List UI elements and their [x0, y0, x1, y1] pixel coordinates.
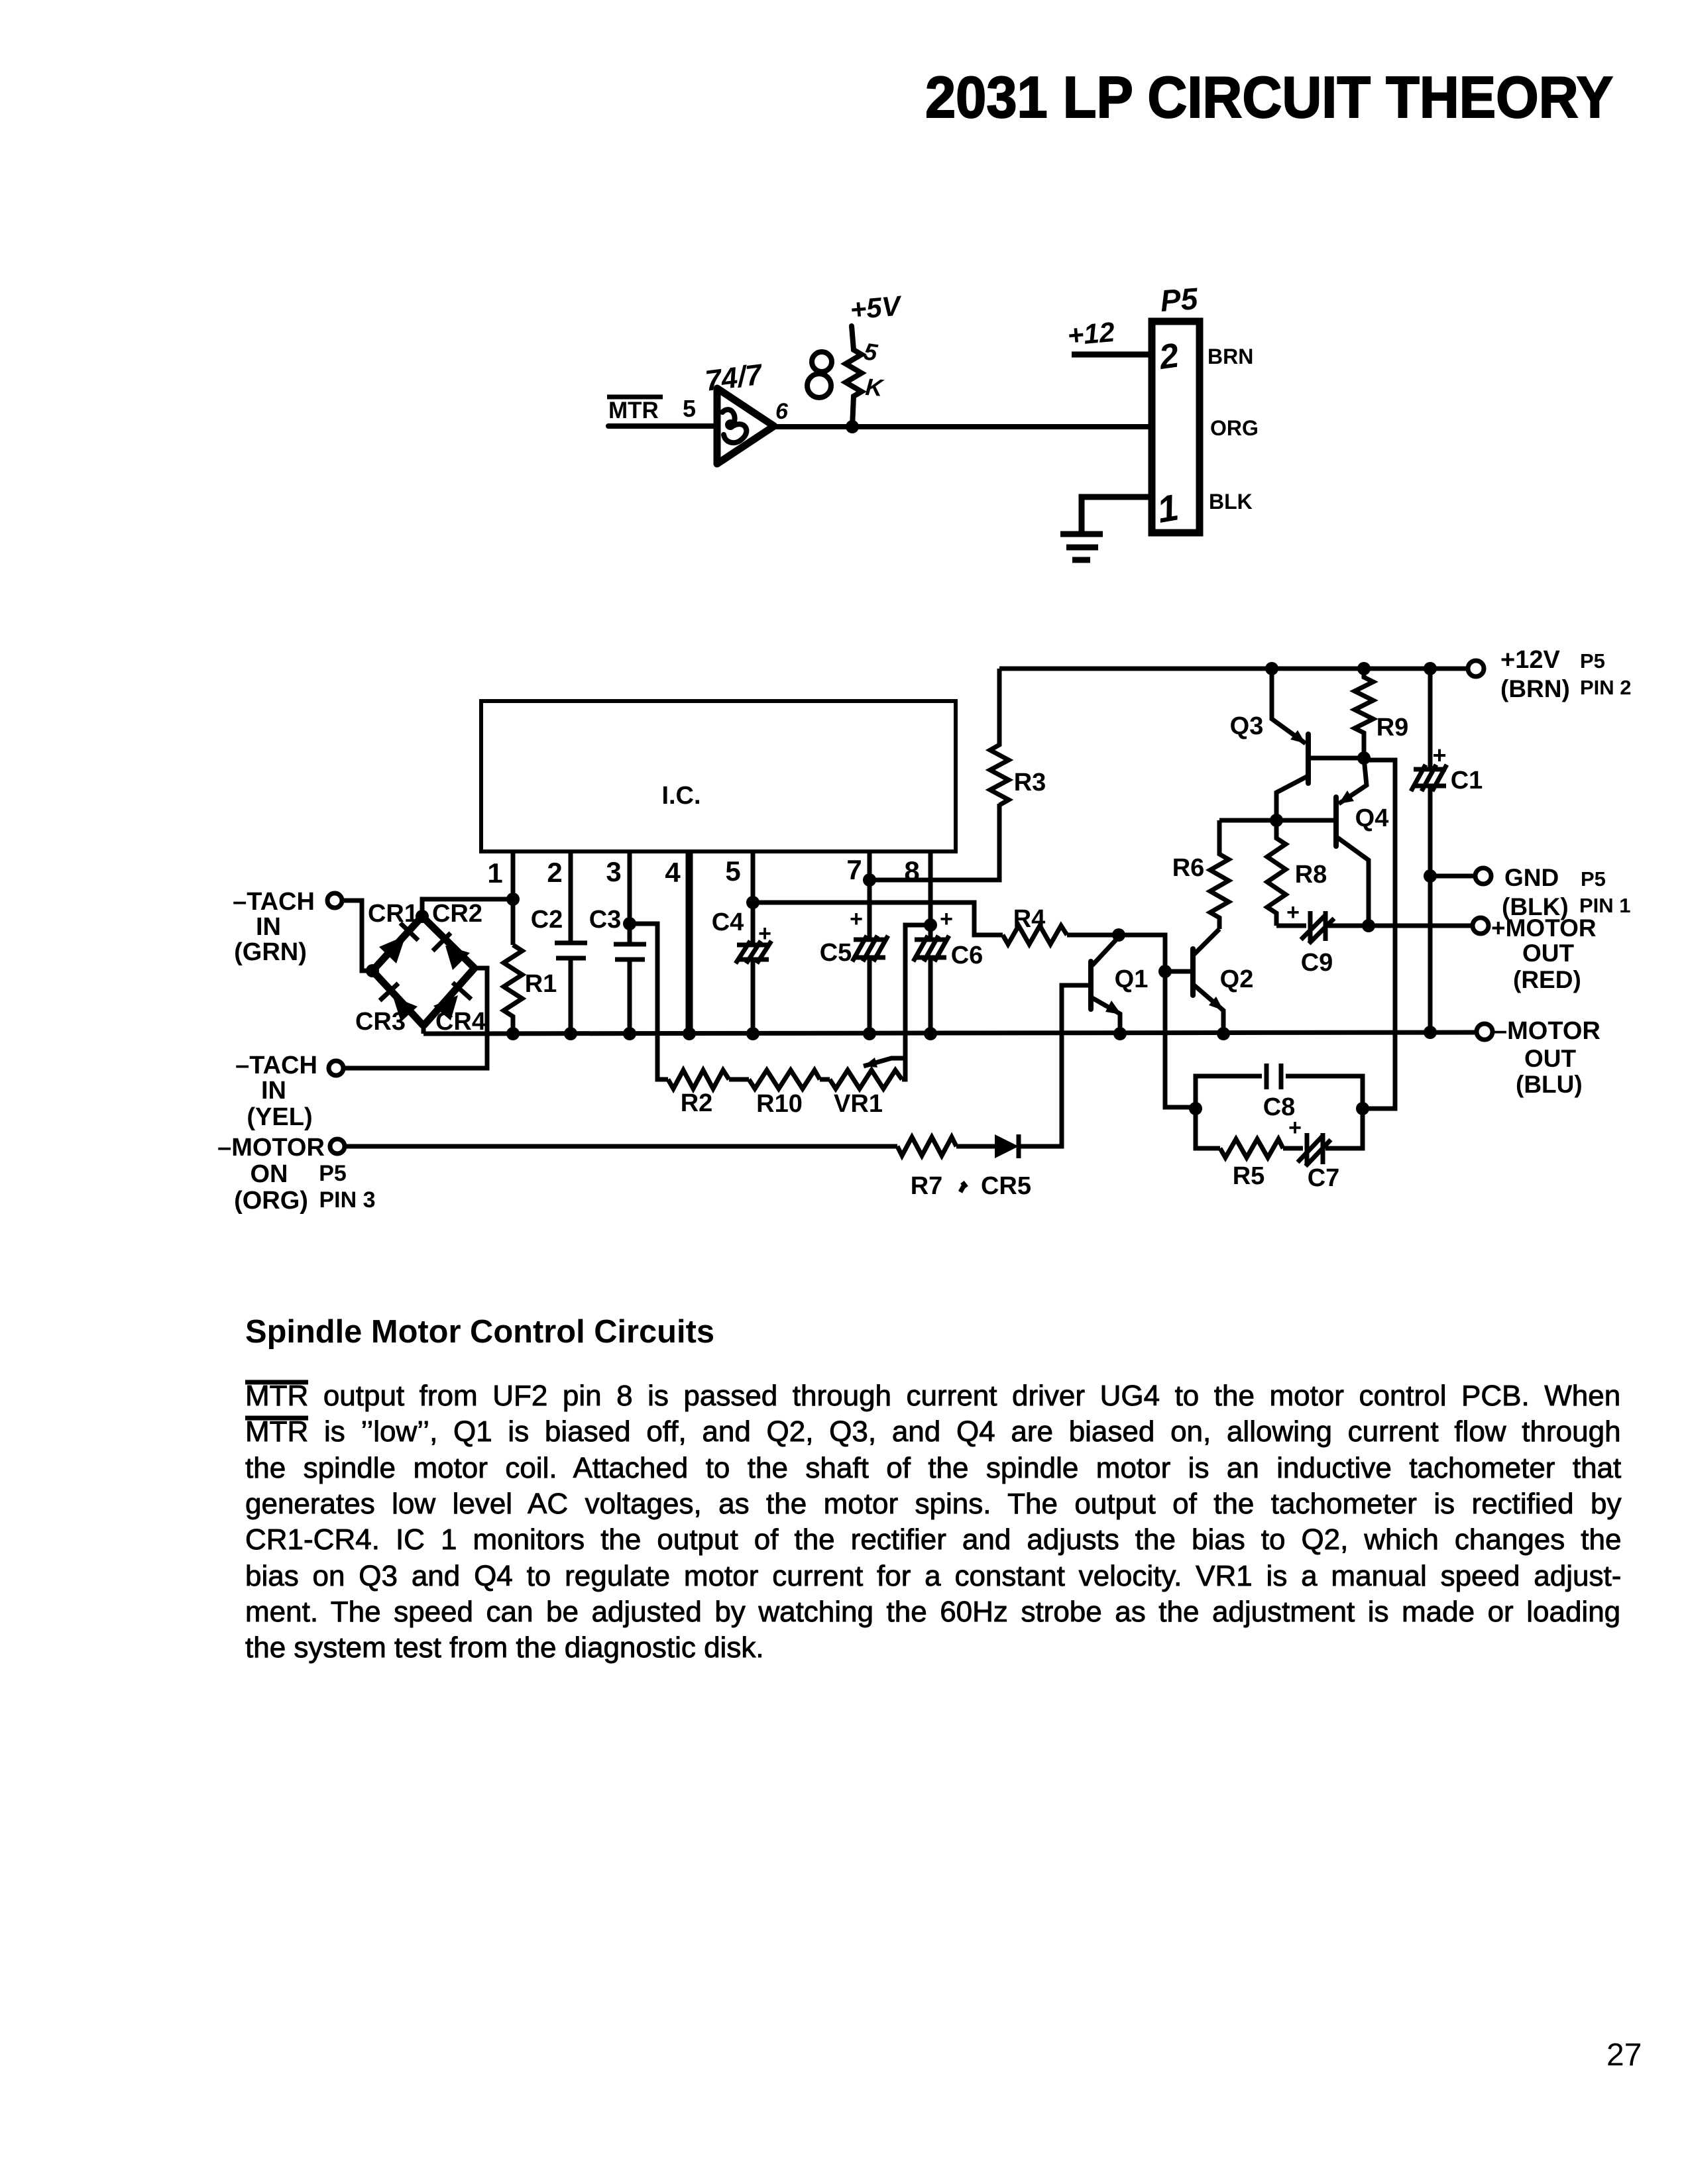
svg-text:MTR: MTR: [608, 398, 659, 423]
wire motor-on to R7: [345, 1144, 897, 1149]
svg-text:R5: R5: [1233, 1162, 1265, 1190]
svg-text:BRN: BRN: [1208, 345, 1253, 368]
svg-text:the system test from the diagn: the system test from the diagnostic disk…: [245, 1631, 764, 1664]
node Q4 collector junction: [1362, 919, 1375, 932]
svg-text:R6: R6: [1172, 854, 1205, 882]
svg-text:+: +: [940, 906, 953, 932]
node rail junctions: [1265, 662, 1278, 675]
node Q2 base junction: [1158, 965, 1172, 978]
svg-text:CR1: CR1: [368, 900, 418, 928]
svg-text:(BRN): (BRN): [1500, 675, 1570, 702]
svg-text:CR5: CR5: [981, 1172, 1031, 1200]
svg-text:CR2: CR2: [432, 900, 482, 928]
wire +12V rail: [999, 667, 1468, 671]
wire pin1 stub: [511, 851, 516, 945]
wire R2 to R10: [729, 1077, 749, 1082]
svg-text:R2: R2: [681, 1089, 713, 1117]
wire VR1 to pin8 net: [902, 925, 930, 1079]
svg-text:C4: C4: [712, 908, 744, 936]
svg-text:ORG: ORG: [1210, 416, 1259, 440]
svg-text:2031 LP CIRCUIT THEORY: 2031 LP CIRCUIT THEORY: [925, 64, 1613, 130]
capacitor C7: [1283, 1146, 1303, 1151]
svg-text:5: 5: [862, 337, 880, 366]
diode CR2: [422, 916, 475, 968]
svg-text:MTR output from UF2 pin 8 is p: MTR output from UF2 pin 8 is passed thro…: [245, 1380, 1620, 1412]
svg-text:CR4: CR4: [435, 1008, 486, 1036]
svg-text:(YEL): (YEL): [247, 1103, 312, 1131]
svg-text:P5: P5: [1580, 649, 1605, 673]
svg-text:ON: ON: [251, 1160, 288, 1188]
wire GRN tach to bridge left: [342, 901, 372, 971]
node GND junction: [1424, 869, 1437, 883]
transistor Q3: [1272, 669, 1306, 743]
svg-text:P5: P5: [1581, 867, 1606, 891]
svg-text:+: +: [758, 921, 771, 946]
wire bridge top to pin1: [422, 899, 513, 916]
svg-text:C7: C7: [1308, 1164, 1340, 1192]
capacitor C1: [1428, 669, 1433, 1032]
svg-text:R4: R4: [1013, 905, 1046, 933]
svg-text:+: +: [1288, 1115, 1302, 1140]
wire CR5 to Q1 base: [1019, 985, 1091, 1146]
svg-text:Q4: Q4: [1355, 804, 1389, 832]
capacitor C3: [614, 944, 646, 959]
resistor R9: [1355, 669, 1373, 758]
resistor R10: [749, 1070, 820, 1089]
svg-text:+5V: +5V: [849, 290, 904, 325]
wire ground bus: [423, 1032, 1485, 1034]
wire R10 to VR1: [820, 1077, 830, 1082]
wire MTR input: [608, 423, 717, 429]
svg-text:74/7: 74/7: [703, 358, 765, 398]
svg-text:–MOTOR: –MOTOR: [217, 1134, 325, 1162]
wire C9 to +MOTOR OUT: [1328, 924, 1473, 928]
wire Q2 node to C8 left: [1189, 1102, 1202, 1115]
capacitor C2: [555, 943, 587, 958]
svg-text:CR1-CR4. IC 1 monitors the out: CR1-CR4. IC 1 monitors the output of the…: [245, 1523, 1621, 1556]
svg-text:PIN 1: PIN 1: [1579, 894, 1631, 917]
svg-text:–MOTOR: –MOTOR: [1493, 1017, 1601, 1045]
svg-text:PIN 3: PIN 3: [319, 1187, 375, 1213]
wire pin7 to R3: [870, 804, 999, 880]
stray pen mark: [960, 1182, 966, 1192]
MTR overline: [607, 395, 663, 400]
svg-text:ment. The speed can be adjuste: ment. The speed can be adjusted by watch…: [245, 1596, 1620, 1628]
resistor R1: [504, 945, 522, 1034]
transistor Q1: [1088, 961, 1094, 1009]
resistor R5: [1196, 1109, 1220, 1148]
node pin7 junction: [863, 873, 876, 887]
svg-text:R3: R3: [1014, 769, 1046, 796]
svg-text:5: 5: [683, 395, 696, 422]
svg-text:K: K: [864, 373, 885, 402]
svg-text:R1: R1: [525, 970, 557, 998]
diode CR5: [995, 1134, 1019, 1158]
svg-text:R10: R10: [756, 1090, 803, 1118]
node pin8 junction: [924, 918, 937, 932]
svg-text:6: 6: [775, 399, 789, 424]
svg-text:Q3: Q3: [1230, 712, 1264, 740]
resistor R4: [1003, 926, 1067, 944]
svg-text:(GRN): (GRN): [234, 938, 307, 966]
capacitor C9: [1276, 924, 1306, 928]
svg-text:PIN 2: PIN 2: [1580, 676, 1632, 699]
svg-text:4: 4: [665, 857, 681, 888]
wire C8 right to Q3 base node: [1363, 760, 1395, 1109]
svg-text:7: 7: [846, 854, 862, 885]
svg-text:(RED): (RED): [1513, 966, 1581, 993]
svg-text:–TACH: –TACH: [235, 1052, 317, 1079]
svg-text:Spindle Motor Control Circuits: Spindle Motor Control Circuits: [245, 1314, 714, 1350]
svg-text:2: 2: [547, 857, 562, 888]
op-amp U1 I.C. box: [481, 701, 956, 851]
resistor R7: [897, 1137, 956, 1156]
svg-text:+MOTOR: +MOTOR: [1491, 914, 1597, 942]
svg-text:C6: C6: [951, 942, 983, 969]
resistor R2: [668, 1070, 729, 1089]
node R8 top junction: [1270, 814, 1283, 827]
ground: [1060, 531, 1103, 537]
svg-text:+: +: [1286, 900, 1300, 925]
svg-text:+12: +12: [1066, 316, 1116, 351]
svg-text:Q2: Q2: [1220, 965, 1254, 993]
wire Q3 collector / Q4 base node: [1219, 818, 1335, 823]
potentiometer VR1: [830, 1070, 902, 1089]
svg-text:R7: R7: [911, 1172, 943, 1200]
wire pin3 to R2: [630, 924, 668, 1079]
wire pin7 stub: [868, 851, 872, 1034]
node pin1 junction: [506, 893, 520, 906]
svg-text:Q1: Q1: [1115, 965, 1149, 993]
diode CR4: [423, 968, 475, 1026]
value scribble left of resistor: [812, 352, 832, 372]
resistor R3: [990, 669, 1009, 805]
svg-text:C1: C1: [1451, 767, 1483, 794]
svg-text:P5: P5: [1159, 281, 1200, 318]
wire bridge bottom to bus: [421, 1026, 426, 1034]
op-amp buffer UG4 (7417): [717, 388, 774, 464]
svg-text:–TACH: –TACH: [233, 888, 315, 916]
wire pin3 stub: [628, 851, 632, 1034]
node Q3 base junction: [1357, 751, 1371, 765]
wire Q2 base: [1165, 969, 1193, 974]
wire +12 to P5 pin 2: [1072, 352, 1152, 358]
svg-text:1: 1: [487, 857, 502, 889]
capacitor C8: [1196, 1076, 1363, 1109]
wire GND stub: [1430, 874, 1475, 879]
diode CR3: [372, 971, 423, 1026]
svg-text:IN: IN: [261, 1077, 286, 1105]
resistor pullup (hand drawn): [846, 326, 862, 427]
node bus junctions: [506, 1027, 520, 1040]
svg-text:R8: R8: [1295, 861, 1327, 889]
svg-text:C3: C3: [589, 906, 622, 934]
transistor Q4: [1339, 758, 1367, 804]
svg-text:the spindle motor coil. Attach: the spindle motor coil. Attached to the …: [245, 1452, 1621, 1484]
svg-text:CR3: CR3: [355, 1008, 406, 1036]
wire pin2 stub: [569, 851, 573, 1034]
svg-text:27: 27: [1606, 2038, 1642, 2073]
svg-text:C2: C2: [531, 906, 563, 934]
capacitor C5: [854, 940, 885, 957]
transistor Q2: [1190, 949, 1196, 995]
node bridge left corner: [366, 964, 379, 977]
svg-text:generates low level AC voltage: generates low level AC voltages, as the …: [245, 1488, 1622, 1520]
connector P5 body: [1152, 321, 1200, 533]
svg-text:+: +: [850, 906, 863, 932]
wire pin4 stub: [686, 851, 693, 1034]
node Q1 collector junction: [1112, 928, 1125, 942]
wire pin5 to R4: [753, 902, 1003, 935]
wire buffer output to P5: [774, 424, 1152, 429]
node junction dot: [846, 420, 859, 433]
svg-text:5: 5: [725, 855, 740, 887]
svg-text:(BLU): (BLU): [1516, 1071, 1583, 1098]
svg-text:+: +: [1432, 741, 1446, 769]
svg-text:(ORG): (ORG): [234, 1187, 308, 1215]
diode CR1: [372, 916, 422, 971]
wire R7 to CR5: [956, 1144, 995, 1149]
wire pin5 stub: [751, 851, 756, 1034]
svg-text:BLK: BLK: [1209, 490, 1253, 514]
svg-text:+12V: +12V: [1500, 646, 1560, 674]
svg-text:3: 3: [606, 856, 621, 887]
capacitor C4: [737, 945, 769, 959]
svg-text:R9: R9: [1377, 714, 1409, 741]
svg-text:I.C.: I.C.: [661, 782, 701, 810]
wire P5 pin1 to ground: [1082, 497, 1152, 534]
resistor R8: [1267, 820, 1286, 926]
svg-text:VR1: VR1: [834, 1090, 883, 1118]
node C1 bus junction: [1424, 1026, 1437, 1039]
svg-text:GND: GND: [1504, 864, 1559, 891]
svg-text:P5: P5: [319, 1161, 347, 1186]
wire pin8 stub: [928, 851, 933, 1034]
svg-text:OUT: OUT: [1524, 1045, 1577, 1072]
node C8 right junction: [1356, 1102, 1369, 1115]
resistor R6: [1210, 820, 1229, 929]
node bridge top corner: [416, 910, 429, 923]
node pin3 junction: [623, 917, 636, 930]
wire R4 to Q2 base column: [1067, 935, 1196, 1107]
svg-text:IN: IN: [256, 913, 281, 941]
svg-text:C9: C9: [1301, 949, 1333, 977]
node pin5 junction: [746, 896, 759, 909]
svg-text:MTR is ’’low’’, Q1 is biased o: MTR is ’’low’’, Q1 is biased off, and Q2…: [245, 1415, 1621, 1448]
wire YEL tach to bridge right: [343, 968, 487, 1068]
capacitor C6: [915, 940, 946, 957]
svg-text:C5: C5: [820, 939, 852, 967]
svg-text:bias on Q3 and Q4 to regulate: bias on Q3 and Q4 to regulate motor curr…: [245, 1560, 1621, 1592]
svg-text:OUT: OUT: [1522, 940, 1575, 967]
